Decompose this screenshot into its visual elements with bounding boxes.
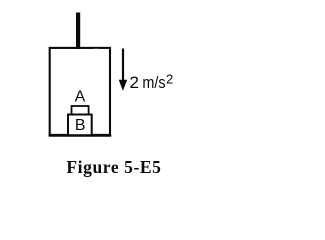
acceleration arrow (downward)	[122, 49, 124, 83]
svg-text:m/s: m/s	[142, 73, 165, 92]
svg-text:A: A	[75, 89, 86, 106]
svg-text:2: 2	[130, 73, 139, 92]
cage/box outline	[50, 48, 110, 135]
svg-text:B: B	[75, 117, 86, 134]
scan nick in cage top edge	[94, 49, 99, 50]
svg-text:Figure 5-E5: Figure 5-E5	[66, 157, 161, 177]
svg-text:2: 2	[166, 72, 173, 87]
block B (large block on cage floor)	[68, 115, 92, 136]
block A (small block on top of B)	[72, 106, 89, 115]
cage floor (thicker bottom line)	[49, 134, 111, 137]
rope (rod at top of cage)	[76, 13, 80, 50]
